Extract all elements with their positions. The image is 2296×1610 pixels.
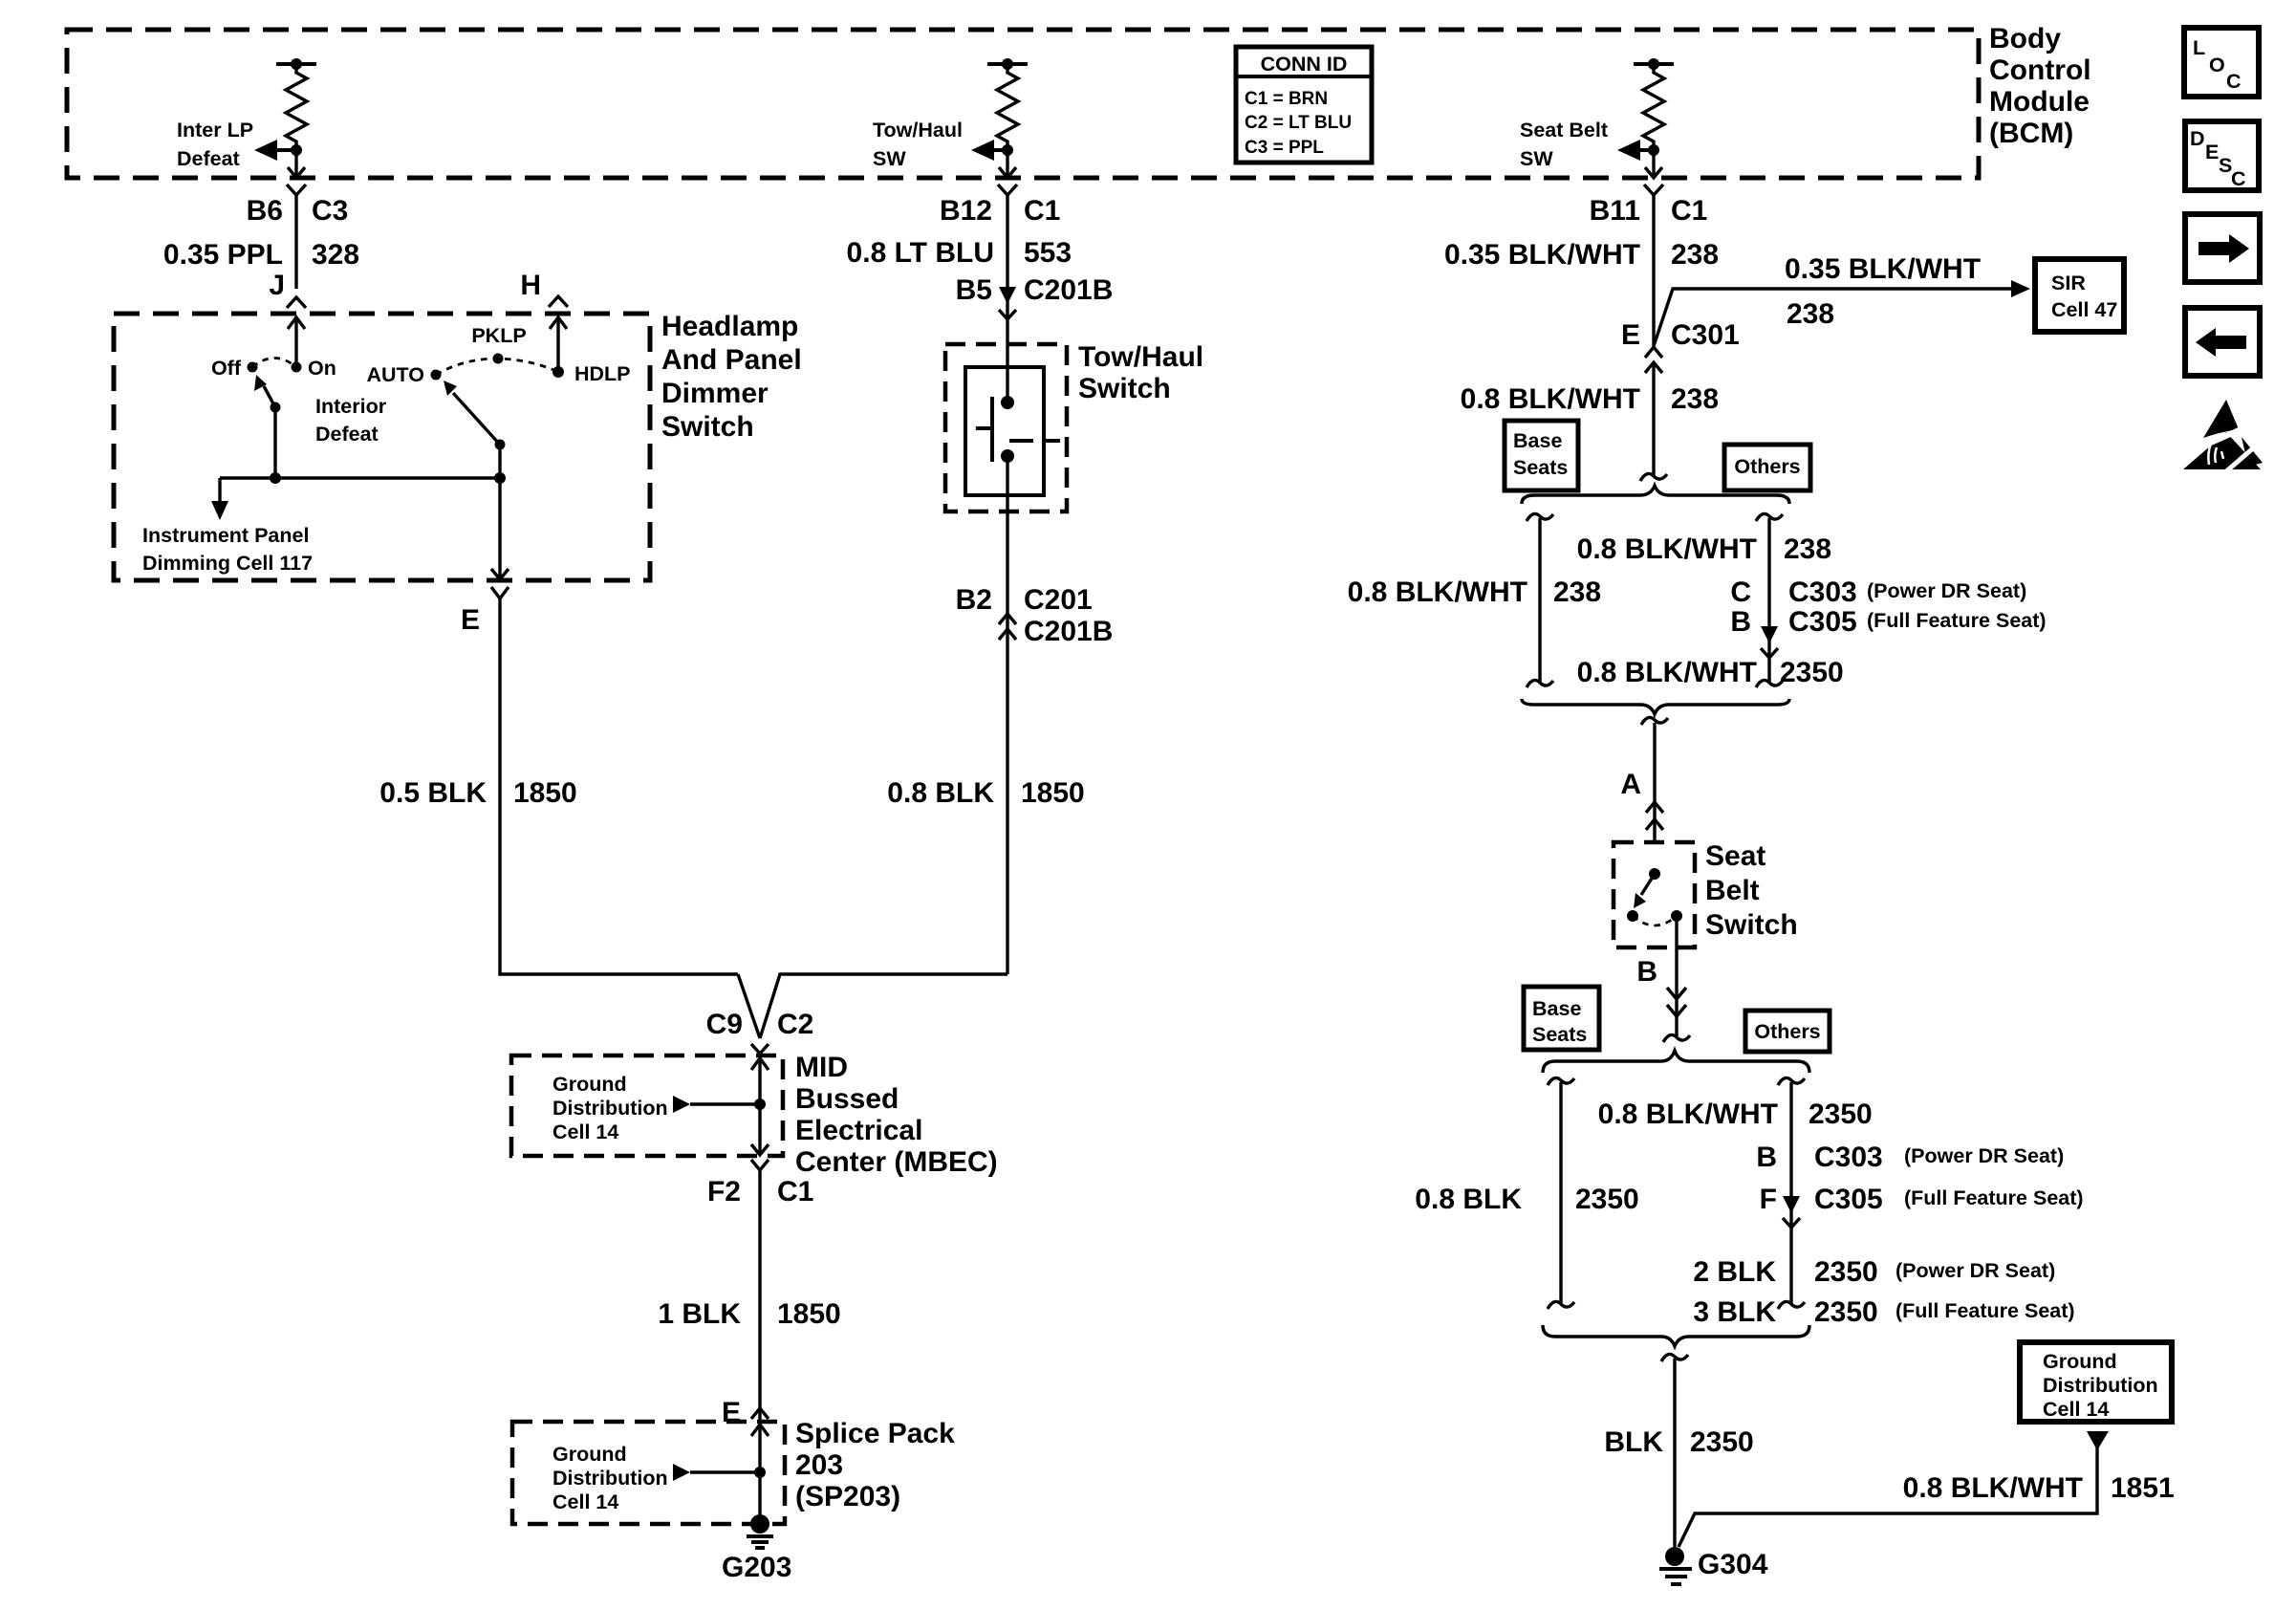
wire: B6 to J: [294, 195, 297, 289]
wire: B11 down to C301: [1652, 195, 1655, 346]
svg-text:1850: 1850: [1021, 777, 1085, 809]
svg-text:1 BLK: 1 BLK: [658, 1298, 741, 1330]
ESD sensitive symbol: [2183, 400, 2263, 472]
Others box 2: [1745, 1011, 1830, 1052]
chevron at splice E: [751, 1408, 769, 1419]
DESC icon box: [2185, 121, 2259, 190]
svg-text:G304: G304: [1698, 1549, 1768, 1580]
node seat belt left contact: [1627, 910, 1638, 922]
wire: down to G304: [1673, 1359, 1676, 1549]
svg-text:B12: B12: [940, 195, 992, 227]
svg-text:0.8 BLK/WHT: 0.8 BLK/WHT: [1461, 383, 1640, 415]
svg-text:Ground: Ground: [552, 1073, 627, 1096]
svg-text:0.8 BLK/WHT: 0.8 BLK/WHT: [1598, 1099, 1778, 1130]
svg-text:Module: Module: [1989, 86, 2090, 118]
ground G203: [747, 1514, 773, 1548]
Inter LP Defeat arrow: [254, 140, 296, 161]
Seat Belt SW arrow: [1617, 140, 1654, 161]
svg-text:D: D: [2190, 127, 2205, 150]
wire: branch to SIR Cell 47: [1654, 280, 2030, 346]
svg-text:E: E: [2205, 141, 2219, 163]
svg-text:Base: Base: [1513, 429, 1562, 452]
svg-text:Dimmer: Dimmer: [661, 378, 769, 409]
svg-text:Switch: Switch: [1078, 373, 1171, 404]
svg-text:2350: 2350: [1809, 1099, 1873, 1130]
dashed arc seat belt: [1633, 916, 1677, 925]
svg-text:0.8 BLK/WHT: 0.8 BLK/WHT: [1348, 577, 1527, 608]
dashed arc AUTO-PKLP-HDLP: [436, 359, 558, 375]
resistor R1 (Inter LP Defeat pull-up): [276, 58, 316, 150]
svg-text:0.35 BLK/WHT: 0.35 BLK/WHT: [1444, 239, 1640, 271]
svg-text:HDLP: HDLP: [574, 362, 631, 385]
connector fork B11/C1: [1644, 185, 1663, 195]
svg-text:0.35 PPL: 0.35 PPL: [163, 239, 283, 271]
svg-text:SIR: SIR: [2051, 272, 2086, 294]
chevron below V: [751, 1044, 769, 1054]
svg-text:C1: C1: [1024, 195, 1060, 227]
svg-text:Bussed: Bussed: [795, 1083, 899, 1115]
svg-text:Cell 47: Cell 47: [2051, 298, 2117, 321]
svg-text:Switch: Switch: [1705, 909, 1798, 941]
svg-text:C201B: C201B: [1024, 616, 1113, 647]
svg-text:Switch: Switch: [661, 411, 754, 443]
svg-text:2350: 2350: [1575, 1184, 1639, 1215]
Tow/Haul Switch dashed box: [945, 344, 1067, 511]
arrow into splice top: [751, 1425, 769, 1524]
svg-text:SW: SW: [873, 147, 906, 170]
right arrow icon box: [2185, 214, 2260, 282]
node PKLP contact: [493, 354, 504, 364]
svg-text:238: 238: [1784, 533, 1831, 565]
svg-text:C1 = BRN: C1 = BRN: [1245, 89, 1328, 109]
svg-text:Seats: Seats: [1532, 1023, 1587, 1046]
svg-text:C: C: [2231, 167, 2246, 190]
wire: horizontal bus inside switch: [220, 476, 500, 479]
svg-text:Inter LP: Inter LP: [177, 119, 253, 141]
svg-text:C2: C2: [777, 1009, 813, 1040]
connector fork B6/C3: [287, 185, 306, 195]
svg-text:Tow/Haul: Tow/Haul: [873, 119, 963, 141]
connector fork B12/C1: [998, 185, 1017, 195]
svg-text:F: F: [1760, 1184, 1777, 1215]
svg-text:C9: C9: [706, 1009, 743, 1040]
svg-text:2350: 2350: [1690, 1426, 1754, 1458]
svg-text:C305: C305: [1814, 1184, 1883, 1215]
connector fork at E: [491, 587, 509, 598]
chevron below MBEC: [751, 1160, 769, 1170]
node lever 2 pivot: [495, 440, 506, 450]
svg-text:C301: C301: [1671, 319, 1740, 351]
Base Seats box 2: [1524, 987, 1599, 1050]
svg-text:Instrument Panel: Instrument Panel: [142, 524, 309, 547]
svg-text:Off: Off: [211, 357, 242, 380]
svg-text:C1: C1: [1671, 195, 1707, 227]
svg-text:H: H: [520, 270, 541, 301]
ground distribution feed triangle (splice): [673, 1464, 760, 1481]
svg-text:238: 238: [1553, 577, 1601, 608]
svg-text:C201: C201: [1024, 584, 1093, 616]
bracket wire right 1: [1756, 513, 1783, 687]
brace 1 (splice spread): [1522, 486, 1789, 504]
svg-text:J: J: [269, 270, 285, 301]
svg-text:1850: 1850: [777, 1298, 841, 1330]
svg-text:Belt: Belt: [1705, 875, 1760, 906]
svg-text:B11: B11: [1590, 195, 1640, 227]
svg-text:0.8 BLK: 0.8 BLK: [1415, 1184, 1522, 1215]
svg-text:Defeat: Defeat: [177, 147, 240, 170]
double chevron below B: [1667, 988, 1686, 1016]
svg-text:E: E: [461, 604, 480, 636]
dashed arc Off-On: [252, 359, 296, 368]
seat belt switch lever: [1634, 874, 1655, 908]
node top contact: [1001, 396, 1014, 409]
svg-text:Seats: Seats: [1513, 456, 1568, 479]
svg-text:PKLP: PKLP: [471, 324, 526, 347]
svg-text:328: 328: [312, 239, 359, 271]
wire: down to seat belt switch: [1653, 723, 1656, 844]
wire: C301 down to splice group: [1652, 362, 1655, 475]
svg-text:E: E: [1621, 319, 1640, 351]
CONN ID table: [1236, 47, 1372, 163]
svg-text:(Full Feature Seat): (Full Feature Seat): [1904, 1186, 2084, 1209]
svg-text:Cell 14: Cell 14: [552, 1120, 618, 1143]
node: R1 junction dot: [291, 144, 302, 156]
svg-text:238: 238: [1671, 239, 1719, 271]
brace 2 (splice merge): [1522, 699, 1789, 714]
double chevron at C201/C201B: [999, 614, 1016, 640]
arrow into MBEC top: [751, 1058, 769, 1155]
node bottom contact: [1001, 449, 1014, 463]
svg-text:C3 = PPL: C3 = PPL: [1245, 138, 1324, 158]
resistor R3 (Seat Belt SW pull-up): [1634, 58, 1674, 150]
Ground Distribution Cell 14 box: [2020, 1342, 2172, 1422]
svg-text:C303: C303: [1788, 577, 1857, 608]
wire 0.8 BLK/WHT 1851 to G304: [1679, 1447, 2097, 1547]
arrow into switch at J: [288, 317, 305, 367]
svg-text:B: B: [1636, 956, 1657, 988]
switch plunger pole: [990, 397, 994, 462]
Tow/Haul switch inner body: [965, 367, 1044, 495]
svg-text:C305: C305: [1788, 606, 1857, 638]
svg-text:B2: B2: [956, 584, 992, 616]
switch lever 2 (headlamp selector): [444, 381, 500, 445]
svg-text:Distribution: Distribution: [2043, 1374, 2158, 1397]
svg-text:Others: Others: [1754, 1020, 1820, 1043]
Base Seats box 1: [1505, 421, 1578, 490]
bracket wire left 2: [1548, 1077, 1574, 1309]
arrow + chevron on right bracket 1: [1761, 626, 1778, 658]
svg-text:CONN ID: CONN ID: [1261, 53, 1348, 76]
svg-text:0.8 LT BLU: 0.8 LT BLU: [847, 237, 994, 269]
svg-text:Cell 14: Cell 14: [552, 1490, 618, 1513]
svg-text:Ground: Ground: [552, 1443, 627, 1466]
svg-text:553: 553: [1024, 237, 1072, 269]
svg-text:SW: SW: [1520, 147, 1553, 170]
svg-text:Electrical: Electrical: [795, 1115, 922, 1146]
node: R2 junction dot: [1002, 144, 1013, 156]
svg-text:238: 238: [1671, 383, 1719, 415]
svg-text:C303: C303: [1814, 1142, 1883, 1173]
contact stub right: [1044, 439, 1060, 443]
node junction dot left: [270, 472, 281, 484]
squiggle wire end 2: [1663, 1034, 1690, 1042]
svg-text:(Full Feature Seat): (Full Feature Seat): [1867, 609, 2047, 632]
node junction dot right: [494, 472, 506, 484]
svg-text:Body: Body: [1989, 23, 2061, 54]
svg-text:B5: B5: [956, 274, 992, 306]
svg-text:(Full Feature Seat): (Full Feature Seat): [1895, 1299, 2075, 1322]
bracket wire right 2: [1778, 1077, 1805, 1309]
contact dash: [1009, 439, 1033, 443]
wire: lever pivot to bus: [273, 407, 276, 478]
svg-text:0.8 BLK/WHT: 0.8 BLK/WHT: [1577, 657, 1757, 688]
svg-text:C1: C1: [777, 1176, 813, 1207]
Tow/Haul SW arrow: [971, 140, 1007, 161]
svg-text:(Power DR Seat): (Power DR Seat): [1904, 1144, 2064, 1167]
wire: seat belt switch down: [1675, 916, 1678, 1036]
svg-text:(SP203): (SP203): [795, 1481, 900, 1512]
arrow at MBEC bottom: [751, 1144, 769, 1155]
svg-text:BLK: BLK: [1604, 1426, 1663, 1458]
connector chevron at J: [287, 297, 306, 308]
svg-text:AUTO: AUTO: [366, 363, 424, 386]
svg-text:A: A: [1620, 769, 1641, 800]
svg-text:2350: 2350: [1780, 657, 1844, 688]
svg-text:2350: 2350: [1814, 1296, 1878, 1328]
svg-text:3 BLK: 3 BLK: [1693, 1296, 1776, 1328]
svg-text:0.8 BLK/WHT: 0.8 BLK/WHT: [1903, 1472, 2083, 1504]
node splice junction dot: [754, 1467, 766, 1478]
arrow into switch at H: [550, 317, 567, 372]
svg-text:Ground: Ground: [2043, 1350, 2117, 1373]
svg-text:L: L: [2193, 36, 2205, 59]
wire: MBEC to splice pack: [758, 1170, 761, 1422]
Headlamp And Panel Dimmer Switch dashed box: [114, 314, 650, 580]
svg-text:(BCM): (BCM): [1989, 118, 2073, 149]
connector chevron at H: [549, 296, 568, 307]
svg-text:Seat: Seat: [1705, 840, 1765, 872]
left arrow icon box: [2185, 308, 2260, 376]
wire 0.5 BLK 1850 (left drop to MBEC): [500, 598, 738, 974]
SIR Cell 47 box: [2035, 259, 2124, 332]
svg-text:Headlamp: Headlamp: [661, 311, 798, 342]
switch lever (interior defeat): [254, 375, 275, 407]
svg-text:2 BLK: 2 BLK: [1693, 1256, 1776, 1288]
wire: R2 down to BCM edge with arrow: [999, 150, 1016, 178]
wire: R3 down to BCM edge with arrow: [1645, 150, 1662, 178]
svg-text:(Power DR Seat): (Power DR Seat): [1895, 1259, 2055, 1282]
triangle below ground distribution box: [2087, 1431, 2109, 1450]
svg-text:Others: Others: [1734, 455, 1800, 478]
svg-text:Control: Control: [1989, 54, 2091, 86]
svg-text:Interior: Interior: [315, 395, 387, 418]
double chevron at A: [1646, 802, 1663, 830]
plunger T bar: [976, 426, 992, 430]
wire: corner into splice V: [760, 974, 1007, 1038]
node: R3 junction dot: [1648, 144, 1659, 156]
ground distribution feed triangle (MBEC): [673, 1096, 760, 1113]
svg-text:203: 203: [795, 1449, 843, 1481]
wire: down to box edge with arrow: [491, 478, 509, 579]
node On contact: [292, 362, 302, 373]
svg-text:1851: 1851: [2111, 1472, 2175, 1504]
Body Control Module (BCM) dashed box: [67, 30, 1979, 178]
svg-text:Tow/Haul: Tow/Haul: [1078, 341, 1203, 373]
svg-text:C: C: [1730, 577, 1751, 608]
svg-text:0.8 BLK: 0.8 BLK: [887, 777, 994, 809]
squiggle top of ground wire: [1661, 1354, 1688, 1361]
svg-text:1850: 1850: [513, 777, 577, 809]
wire into MBEC: [758, 1054, 761, 1055]
svg-text:2350: 2350: [1814, 1256, 1878, 1288]
svg-text:F2: F2: [707, 1176, 741, 1207]
node AUTO contact: [431, 370, 442, 381]
wire: V left slant: [738, 974, 760, 1038]
svg-text:238: 238: [1787, 298, 1834, 330]
squiggle top of wire A: [1641, 717, 1668, 725]
svg-text:Distribution: Distribution: [552, 1097, 668, 1120]
node lever pivot: [271, 402, 281, 413]
MID Bussed Electrical Center dashed box: [511, 1055, 783, 1156]
arrow + chevron at C201B: [999, 287, 1016, 319]
node HDLP contact: [552, 366, 564, 378]
Splice Pack 203 dashed box: [512, 1422, 785, 1524]
svg-text:B6: B6: [247, 195, 283, 227]
resistor R2 (Tow/Haul SW pull-up): [987, 58, 1028, 150]
svg-text:And Panel: And Panel: [661, 344, 802, 376]
svg-text:Center (MBEC): Center (MBEC): [795, 1146, 998, 1178]
svg-text:Distribution: Distribution: [552, 1467, 668, 1490]
Seat Belt Switch dashed box: [1614, 842, 1695, 947]
svg-text:C201B: C201B: [1024, 274, 1113, 306]
svg-text:Seat Belt: Seat Belt: [1520, 119, 1608, 141]
svg-text:MID: MID: [795, 1052, 848, 1083]
node seat belt top contact: [1649, 868, 1660, 880]
node seat belt right contact: [1671, 910, 1682, 922]
ground G304: [1659, 1547, 1692, 1584]
node MBEC junction dot: [754, 1099, 766, 1110]
brace 4 (splice merge 2): [1543, 1325, 1809, 1346]
arrow to Instrument Panel Dimming: [211, 478, 228, 520]
LOC icon box: [2184, 28, 2259, 97]
wire: R1 down to BCM edge with arrow: [288, 150, 305, 178]
squiggle wire end 1: [1640, 473, 1667, 481]
svg-text:0.5 BLK: 0.5 BLK: [379, 777, 487, 809]
wire: switch to B2: [1006, 456, 1008, 974]
svg-text:0.35 BLK/WHT: 0.35 BLK/WHT: [1785, 253, 1981, 285]
wire: lever 2 to bus: [498, 445, 501, 478]
svg-text:Dimming Cell 117: Dimming Cell 117: [142, 552, 313, 575]
svg-text:C: C: [2226, 70, 2242, 93]
svg-text:C2 = LT BLU: C2 = LT BLU: [1245, 113, 1352, 133]
Others box 1: [1724, 445, 1810, 490]
svg-text:Defeat: Defeat: [315, 423, 379, 446]
svg-text:Cell 14: Cell 14: [2043, 1398, 2109, 1421]
svg-text:G203: G203: [722, 1552, 791, 1583]
svg-text:B: B: [1730, 606, 1751, 638]
svg-text:On: On: [308, 357, 336, 380]
svg-text:Base: Base: [1532, 997, 1581, 1020]
arrow + chevron on right bracket 2: [1783, 1196, 1800, 1228]
bracket wire left 1: [1527, 513, 1553, 687]
double chevron at C301: [1645, 347, 1662, 373]
brace 3 (splice spread 2): [1543, 1051, 1809, 1073]
node Off contact: [248, 362, 258, 373]
svg-text:0.8 BLK/WHT: 0.8 BLK/WHT: [1577, 533, 1757, 565]
svg-text:(Power DR Seat): (Power DR Seat): [1867, 579, 2026, 602]
svg-text:Splice Pack: Splice Pack: [795, 1418, 955, 1449]
wire: B12 down through C201B: [1006, 195, 1008, 402]
svg-text:C3: C3: [312, 195, 348, 227]
svg-text:B: B: [1756, 1142, 1777, 1173]
svg-text:O: O: [2209, 54, 2225, 76]
